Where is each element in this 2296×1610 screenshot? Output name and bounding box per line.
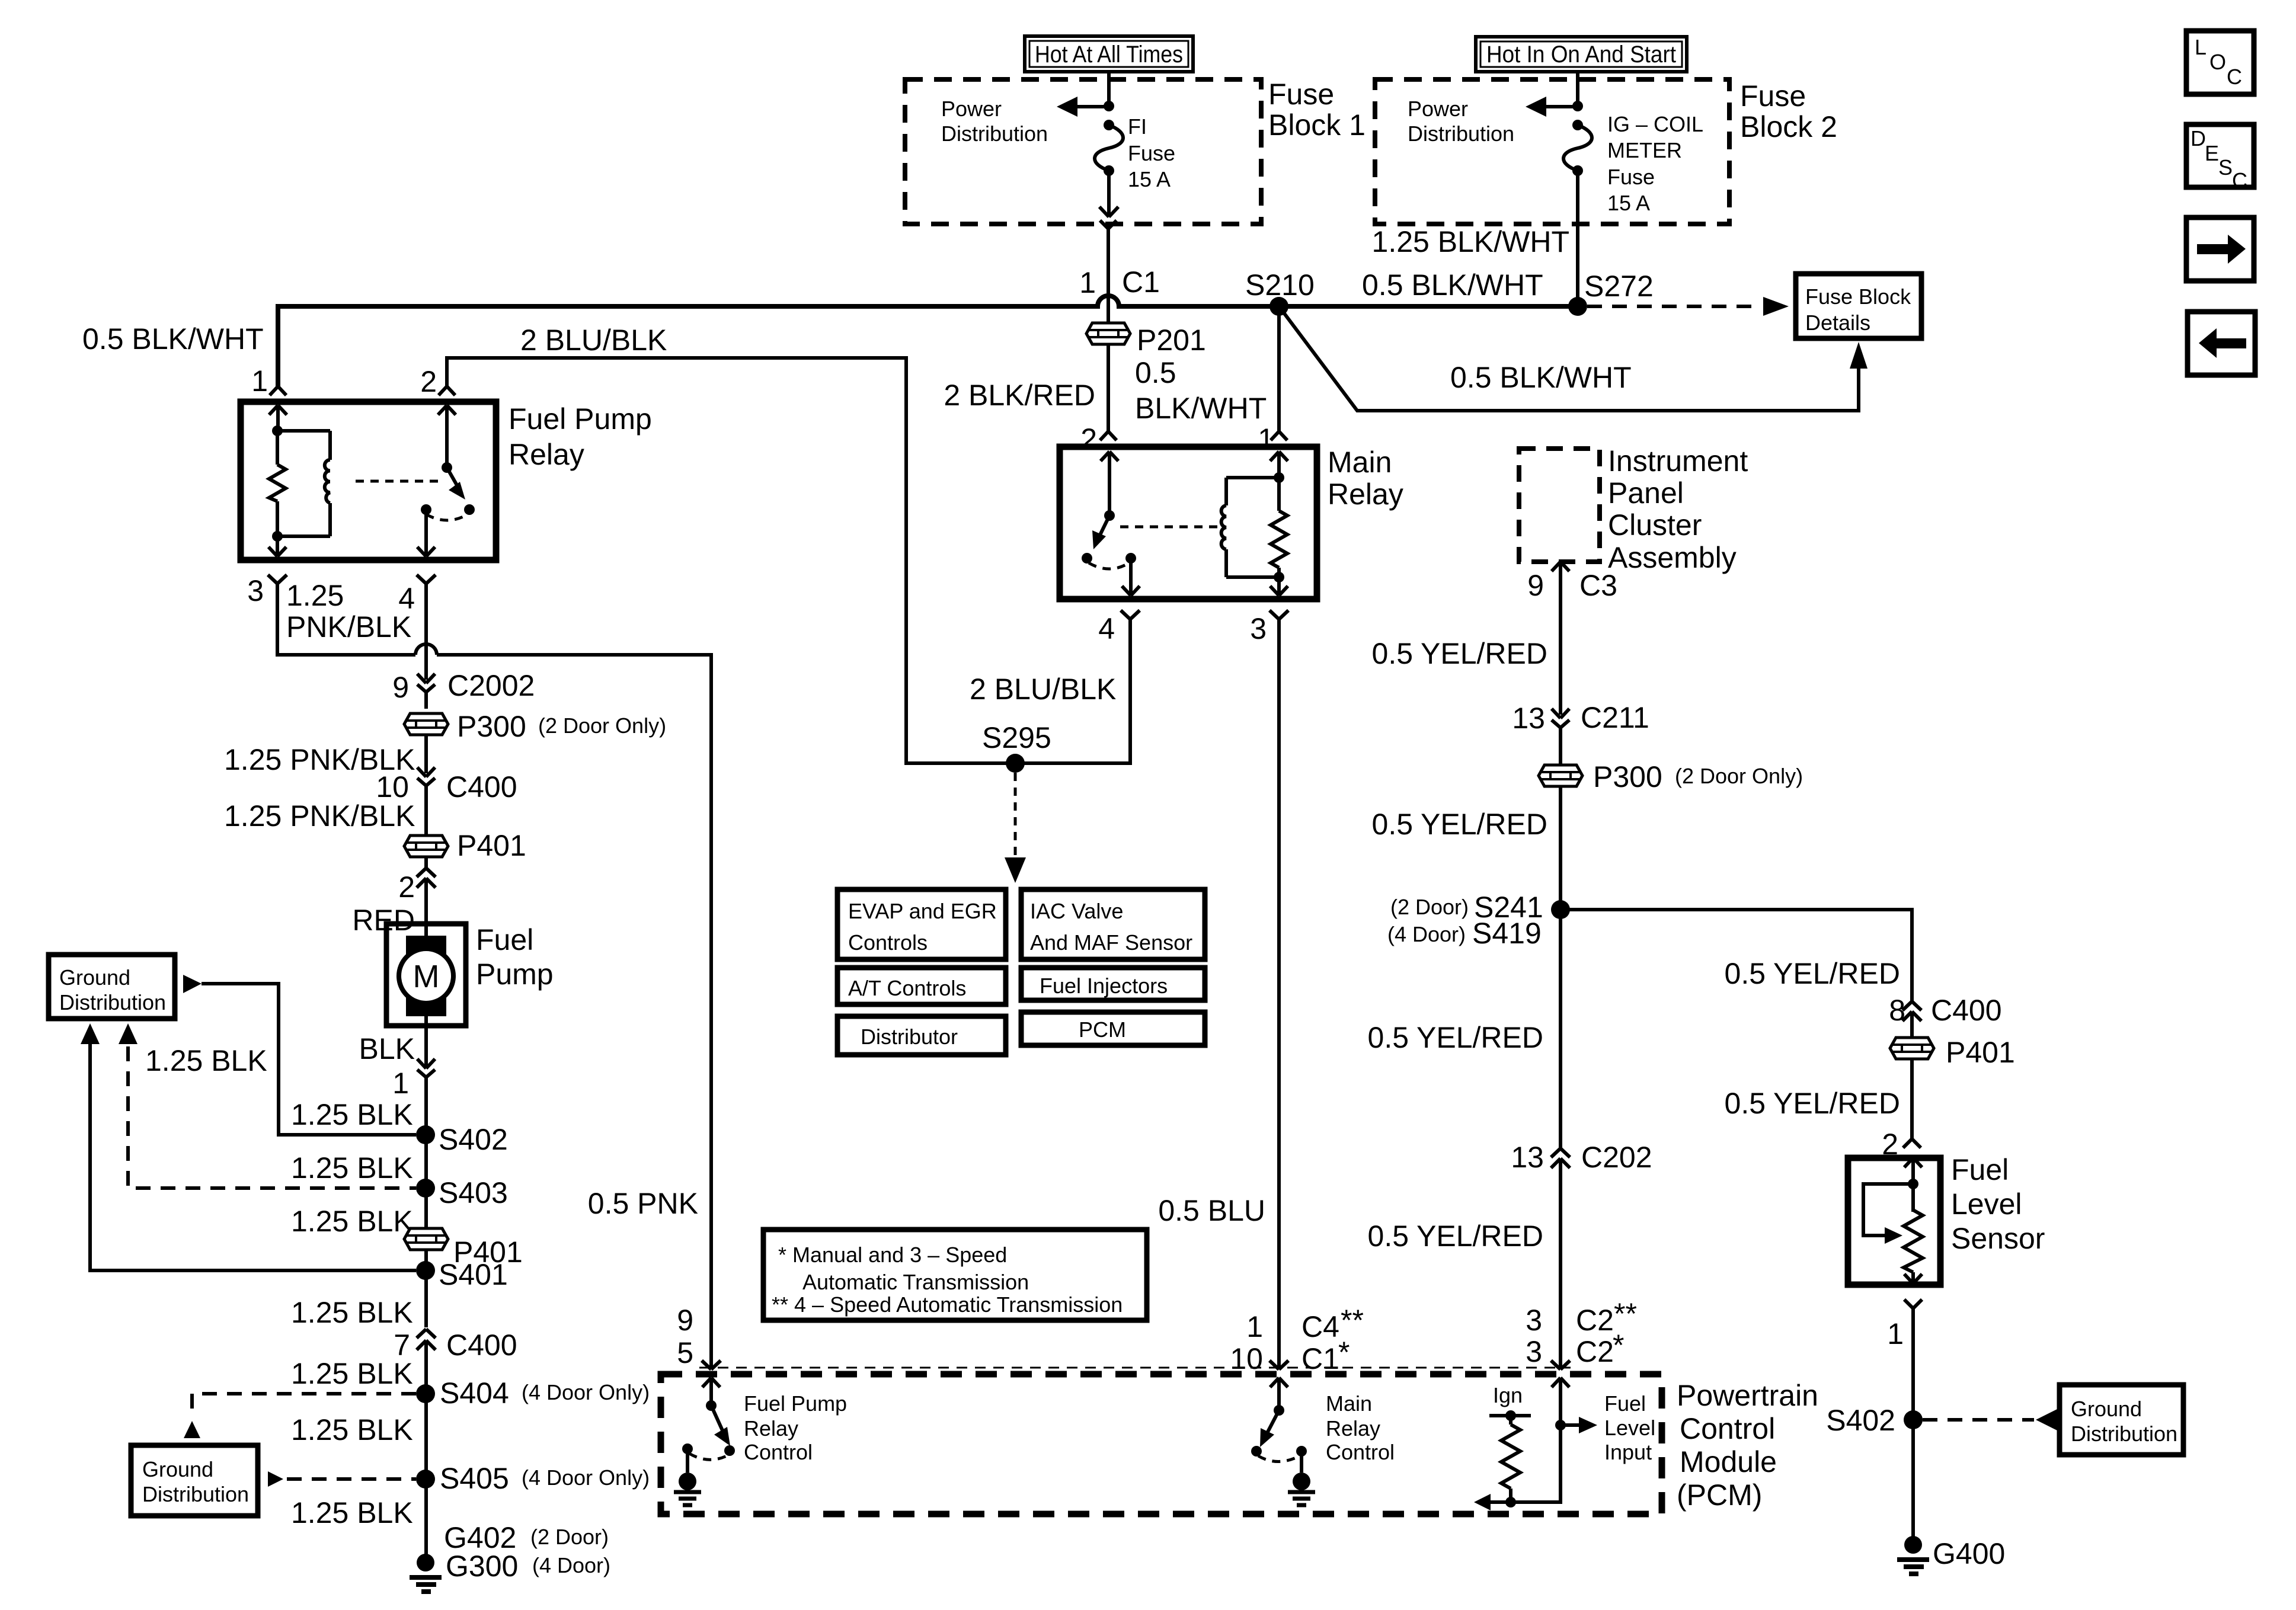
- wire 0.5 PNK chevron at PCM: [702, 1361, 721, 1369]
- wire label 0.5 BLK/WHT (below P201): [1135, 356, 1267, 425]
- svg-text:Cluster: Cluster: [1608, 508, 1702, 542]
- main relay coil + resistor: [1221, 472, 1287, 582]
- svg-text:Hot At All Times: Hot At All Times: [1035, 41, 1183, 68]
- wire P300 to S241: [1559, 786, 1562, 910]
- svg-text:P401: P401: [1946, 1036, 2015, 1069]
- svg-text:15 A: 15 A: [1128, 167, 1171, 191]
- wire main relay pin 3 down to PCM: [1277, 619, 1281, 1369]
- in-line connector 13 C202 (up chevrons): [1511, 1141, 1652, 1369]
- svg-text:Distributor: Distributor: [861, 1025, 958, 1049]
- svg-text:5: 5: [677, 1336, 693, 1369]
- svg-text:G300: G300: [446, 1550, 518, 1583]
- svg-text:Ign: Ign: [1493, 1383, 1523, 1407]
- wire S403 to P401: [424, 1188, 428, 1228]
- svg-text:8: 8: [1889, 994, 1905, 1027]
- svg-text:Instrument: Instrument: [1608, 444, 1748, 478]
- svg-text:**: **: [1341, 1304, 1364, 1337]
- arrow right from ground distribution (S405 dashed branch): [268, 1471, 283, 1487]
- fuse F2 (IG-COIL METER Fuse 15 A): [1563, 120, 1592, 176]
- svg-text:0.5 BLK/WHT: 0.5 BLK/WHT: [1450, 361, 1632, 394]
- PCM main relay control ground: [1288, 1451, 1315, 1505]
- svg-text:RED: RED: [352, 904, 415, 937]
- wire fuse to C1 with arrow: [1099, 171, 1118, 217]
- svg-text:2 BLU/BLK: 2 BLU/BLK: [970, 673, 1116, 706]
- wire into fuel pump: [424, 924, 428, 1026]
- splice S402 (right): [1826, 1404, 1923, 1437]
- wire S401 to C400: [424, 1270, 428, 1327]
- svg-text:Sensor: Sensor: [1951, 1222, 2045, 1255]
- svg-text:Power: Power: [1408, 97, 1468, 121]
- svg-text:3: 3: [247, 574, 264, 607]
- svg-text:1.25 BLK: 1.25 BLK: [291, 1413, 413, 1446]
- svg-text:Fuel: Fuel: [1604, 1391, 1646, 1416]
- wire 1.25 BLK ground distribution to S402: [202, 984, 416, 1135]
- svg-text:1.25 BLK: 1.25 BLK: [291, 1205, 413, 1238]
- wire C1 to P201: [1107, 229, 1110, 323]
- ground G402 / G300: [410, 1521, 610, 1592]
- svg-text:9: 9: [1527, 569, 1544, 602]
- svg-text:1.25 BLK: 1.25 BLK: [291, 1098, 413, 1131]
- splice S241/S419: [1387, 891, 1570, 950]
- in-line connector 7 C400 (up chevrons): [394, 1329, 517, 1394]
- svg-text:C2: C2: [1576, 1335, 1614, 1368]
- svg-text:2 BLU/BLK: 2 BLU/BLK: [520, 324, 667, 357]
- svg-text:2: 2: [420, 365, 437, 398]
- note box (transmission footnotes): [763, 1230, 1147, 1320]
- svg-text:C1: C1: [1122, 265, 1160, 299]
- svg-text:(PCM): (PCM): [1677, 1478, 1762, 1512]
- Hot At All Times title box: [1025, 36, 1193, 72]
- svg-text:IAC Valve: IAC Valve: [1030, 899, 1123, 923]
- svg-text:D: D: [2191, 126, 2206, 151]
- component box Fuel Injectors: [1021, 968, 1205, 1000]
- in-line connector 1 (down chevrons): [392, 1026, 435, 1135]
- wire S210 diagonal to fuse block details: [1279, 306, 1859, 411]
- PCM connector plane dashed line: [699, 1367, 1571, 1369]
- PCM fuel level input terminal arrow: [1552, 1378, 1569, 1425]
- main relay pin 4 chevron: [1098, 610, 1140, 645]
- svg-text:PNK/BLK: PNK/BLK: [286, 610, 411, 644]
- svg-text:Distribution: Distribution: [941, 121, 1048, 146]
- svg-text:Fuel: Fuel: [476, 923, 533, 956]
- arrow up to ground distribution (S401 branch): [81, 1023, 100, 1044]
- svg-text:Distribution: Distribution: [2071, 1422, 2177, 1446]
- svg-text:Control: Control: [1326, 1440, 1395, 1464]
- fuel level sensor box: [1848, 1153, 2045, 1285]
- svg-text:Distribution: Distribution: [1408, 121, 1514, 146]
- splice S210: [1245, 268, 1315, 316]
- svg-text:S402: S402: [1826, 1404, 1895, 1437]
- splice S403: [416, 1176, 508, 1209]
- svg-text:C202: C202: [1581, 1141, 1652, 1174]
- wire from Hot In On And Start into fuse block 2: [1576, 72, 1579, 106]
- power distribution label (block 2): [1408, 97, 1514, 146]
- fuse block details box: [1796, 274, 1921, 338]
- svg-text:Panel: Panel: [1608, 476, 1684, 510]
- svg-text:*: *: [1338, 1336, 1350, 1369]
- svg-text:P300: P300: [1593, 760, 1662, 793]
- splice S295: [982, 721, 1051, 773]
- wire relay pin 4 down (1.25 PNK/BLK): [424, 584, 428, 680]
- svg-text:Fuse: Fuse: [1607, 165, 1655, 189]
- svg-text:Fuel: Fuel: [1951, 1153, 2009, 1186]
- svg-text:(4 Door): (4 Door): [1387, 922, 1466, 946]
- svg-text:1.25 BLK: 1.25 BLK: [291, 1296, 413, 1329]
- splice S402: [416, 1123, 508, 1156]
- wire 0.5 BLU chevron at PCM: [1269, 1361, 1288, 1369]
- fuel pump relay pin 3 chevron: [247, 574, 287, 607]
- Fuel Level Input label: [1604, 1391, 1655, 1464]
- ground G400: [1897, 1536, 2005, 1574]
- arrow left toward S402: [2036, 1409, 2057, 1430]
- svg-text:1.25 BLK: 1.25 BLK: [291, 1357, 413, 1390]
- svg-text:S210: S210: [1245, 268, 1315, 302]
- svg-text:Fuel Pump: Fuel Pump: [509, 402, 652, 436]
- arrow up from ground distribution (S404 dashed branch): [184, 1421, 200, 1438]
- fuel pump relay pin 4 terminal arrow: [417, 510, 435, 556]
- fuse F1 (FI Fuse 15 A): [1095, 120, 1123, 176]
- svg-text:S: S: [2218, 155, 2233, 180]
- svg-text:Block 2: Block 2: [1740, 110, 1837, 143]
- Fuel Pump Relay Control label: [744, 1391, 847, 1464]
- wire S210 down to main relay pin 1: [1258, 306, 1279, 456]
- fuse block 2 label: [1740, 79, 1837, 143]
- PCM dashed box: [661, 1374, 1662, 1514]
- svg-text:(2 Door): (2 Door): [1390, 895, 1469, 919]
- wire label 1.25 PNK/BLK (relay pins): [286, 579, 411, 644]
- component box IAC Valve And MAF Sensor: [1021, 889, 1205, 959]
- in-line connector 2 (up chevrons): [398, 856, 436, 924]
- svg-text:Main: Main: [1328, 446, 1392, 479]
- svg-text:Relay: Relay: [1326, 1416, 1380, 1441]
- svg-text:METER: METER: [1607, 138, 1682, 162]
- wire 0.5 BLK/WHT drop to fuel pump relay pin 1: [251, 364, 286, 398]
- fuel pump relay pin 1 terminal arrow: [269, 405, 287, 431]
- svg-text:E: E: [2205, 141, 2219, 165]
- svg-text:0.5 YEL/RED: 0.5 YEL/RED: [1368, 1021, 1543, 1054]
- svg-text:Level: Level: [1951, 1188, 2022, 1221]
- svg-text:EVAP and EGR: EVAP and EGR: [848, 899, 997, 923]
- wire fuse block 2 to S272: [1576, 171, 1579, 306]
- wire S402 to G400: [1911, 1420, 1915, 1545]
- main relay actuation dashed link: [1120, 526, 1219, 529]
- splice S272: [1568, 270, 1654, 316]
- svg-text:M: M: [413, 959, 440, 994]
- wire from Hot At All Times into fuse block 1: [1107, 72, 1111, 106]
- svg-text:S405: S405: [440, 1462, 509, 1495]
- component box PCM (reference): [1021, 1012, 1205, 1045]
- svg-text:Relay: Relay: [1328, 478, 1403, 511]
- fuel pump relay pin 4 chevron: [398, 575, 436, 615]
- arrow from ground distribution to S402 wire: [183, 975, 202, 993]
- svg-text:And MAF Sensor: And MAF Sensor: [1030, 930, 1192, 955]
- svg-text:C2002: C2002: [447, 669, 535, 702]
- svg-text:Block 1: Block 1: [1268, 108, 1366, 142]
- sensor pin 2 chevron: [1882, 1128, 1921, 1161]
- wire S402 to S403: [424, 1135, 428, 1188]
- svg-text:PCM: PCM: [1079, 1017, 1126, 1042]
- svg-text:** 4 – Speed Automatic Transmi: ** 4 – Speed Automatic Transmission: [772, 1292, 1123, 1317]
- svg-text:1.25 PNK/BLK: 1.25 PNK/BLK: [224, 799, 415, 833]
- svg-text:Fuel Pump: Fuel Pump: [744, 1391, 847, 1416]
- in-line connector 9 C2002: [392, 669, 535, 709]
- wire S404 to S405: [424, 1394, 428, 1479]
- svg-text:C4: C4: [1302, 1310, 1339, 1343]
- Main Relay Control label: [1326, 1391, 1395, 1464]
- svg-text:(4 Door Only): (4 Door Only): [522, 1380, 650, 1404]
- svg-text:Fuse: Fuse: [1268, 78, 1334, 111]
- svg-text:C: C: [2227, 65, 2242, 89]
- wire P401 to fuel level sensor pin 2: [1910, 1058, 1914, 1139]
- svg-text:S403: S403: [439, 1176, 508, 1209]
- svg-text:1.25 BLK: 1.25 BLK: [291, 1496, 413, 1529]
- in-line connector P401 (left lower): [404, 1228, 523, 1269]
- svg-text:P300: P300: [457, 710, 526, 743]
- icon box DESC: [2186, 124, 2254, 193]
- wire fuel level chevron at PCM: [1551, 1361, 1570, 1369]
- svg-text:* Manual and 3 – Speed: * Manual and 3 – Speed: [778, 1243, 1007, 1267]
- IG-COIL METER Fuse 15 A label: [1607, 112, 1703, 215]
- dashed arrow from S295 to component boxes: [1005, 773, 1026, 883]
- wire P201 to main relay pin 2: [1080, 344, 1108, 456]
- main relay pin 4 terminal arrow: [1122, 558, 1140, 596]
- svg-text:1: 1: [251, 364, 268, 398]
- svg-text:3: 3: [1526, 1304, 1542, 1337]
- PCM fuel level input node: [1555, 1417, 1597, 1433]
- PCM main relay control terminal arrow: [1270, 1378, 1288, 1410]
- svg-text:0.5: 0.5: [1135, 356, 1176, 389]
- dashed wire S403 to ground distribution: [128, 1046, 416, 1188]
- svg-text:S404: S404: [440, 1377, 509, 1410]
- PCM main relay control switch: [1251, 1405, 1307, 1462]
- svg-text:1: 1: [392, 1067, 409, 1100]
- svg-text:9: 9: [392, 671, 409, 704]
- svg-text:C211: C211: [1581, 701, 1649, 734]
- svg-text:Main: Main: [1326, 1391, 1372, 1416]
- fuel pump relay actuation dashed link: [356, 480, 442, 483]
- fuel pump relay switch: [421, 405, 475, 520]
- in-line connector P300 (left): [404, 710, 666, 743]
- PCM fuel pump relay control ground: [674, 1449, 701, 1505]
- svg-text:BLK/WHT: BLK/WHT: [1135, 392, 1267, 425]
- svg-text:15 A: 15 A: [1607, 191, 1650, 215]
- arrow up to ground distribution (S403 dashed branch): [119, 1023, 137, 1044]
- in-line connector 10 C400: [376, 767, 517, 836]
- svg-text:Automatic Transmission: Automatic Transmission: [802, 1270, 1029, 1294]
- svg-text:Level: Level: [1604, 1416, 1655, 1440]
- fuel level sensor internals (variable resistor): [1863, 1158, 1923, 1285]
- in-line connector P401 (left upper): [404, 829, 526, 862]
- svg-text:(2 Door): (2 Door): [530, 1525, 609, 1549]
- svg-text:C400: C400: [1931, 994, 2002, 1027]
- PCM pins 1 C4** / 10 C1* labels: [1230, 1304, 1364, 1375]
- dashed wire S272 to fuse block details: [1587, 297, 1789, 316]
- svg-text:10: 10: [1230, 1342, 1263, 1375]
- PCM fuel pump relay control switch: [682, 1400, 735, 1459]
- svg-text:C1: C1: [1302, 1342, 1339, 1375]
- svg-text:9: 9: [677, 1304, 693, 1337]
- svg-text:1.25 BLK: 1.25 BLK: [291, 1151, 413, 1185]
- wire S241 branch to fuel level sensor: [1560, 910, 1912, 1001]
- FI Fuse 15 A label: [1128, 114, 1175, 191]
- component box Distributor: [837, 1016, 1006, 1055]
- in-line connector 13 C211: [1512, 701, 1649, 766]
- main relay switch: [1082, 510, 1136, 569]
- svg-text:S295: S295: [982, 721, 1051, 754]
- in-line connector 8 C400 (up chevrons): [1889, 994, 2001, 1038]
- wire C202 segment: [1559, 910, 1562, 1148]
- svg-text:P401: P401: [457, 829, 526, 862]
- svg-text:Control: Control: [744, 1440, 813, 1464]
- wire S405 to ground: [424, 1479, 428, 1563]
- svg-text:Hot In On And Start: Hot In On And Start: [1486, 41, 1676, 68]
- sensor pin 1 chevron: [1887, 1299, 1922, 1420]
- svg-text:Fuse Block: Fuse Block: [1805, 284, 1911, 309]
- svg-text:A/T Controls: A/T Controls: [848, 976, 966, 1000]
- svg-text:0.5 BLU: 0.5 BLU: [1158, 1194, 1265, 1227]
- main relay pin 1 terminal arrow: [1270, 452, 1288, 478]
- svg-text:O: O: [2209, 50, 2226, 74]
- ground distribution box (lower left): [131, 1445, 258, 1516]
- svg-text:(4 Door): (4 Door): [532, 1553, 610, 1577]
- connector C1 chevron: [1079, 220, 1160, 299]
- svg-text:1: 1: [1246, 1310, 1263, 1343]
- svg-text:Details: Details: [1805, 311, 1870, 335]
- main relay pin 3 terminal arrow: [1270, 577, 1288, 596]
- PCM fuel pump relay control terminal arrow: [702, 1378, 720, 1406]
- PCM pins 9/5 labels: [677, 1304, 693, 1369]
- fuse block 1 dashed box: [905, 79, 1261, 224]
- PCM pins 3 C2** / 3 C2* labels: [1526, 1297, 1637, 1368]
- svg-text:S419: S419: [1472, 917, 1542, 950]
- wire S401 to ground distribution: [90, 1044, 416, 1270]
- wire P300 to C400: [424, 734, 428, 773]
- PCM label: [1677, 1379, 1818, 1512]
- svg-text:C400: C400: [446, 1329, 517, 1362]
- svg-text:1.25 BLK/WHT: 1.25 BLK/WHT: [1372, 225, 1569, 258]
- svg-text:13: 13: [1512, 702, 1545, 735]
- splice S405: [416, 1462, 650, 1495]
- svg-text:0.5 BLK/WHT: 0.5 BLK/WHT: [82, 322, 264, 356]
- fuel pump relay pin 3 terminal arrow: [268, 536, 286, 556]
- svg-text:(2 Door Only): (2 Door Only): [1675, 764, 1803, 788]
- svg-text:Power: Power: [941, 97, 1002, 121]
- svg-text:4: 4: [1098, 612, 1115, 645]
- svg-text:0.5 PNK: 0.5 PNK: [588, 1187, 698, 1220]
- splice S401: [416, 1258, 508, 1291]
- svg-text:Ground: Ground: [59, 965, 130, 990]
- svg-text:Powertrain: Powertrain: [1677, 1379, 1818, 1412]
- svg-text:1: 1: [1887, 1317, 1904, 1350]
- svg-text:(4 Door Only): (4 Door Only): [522, 1465, 650, 1490]
- svg-text:Fuel Injectors: Fuel Injectors: [1040, 974, 1168, 998]
- wire 0.5 PNK from relay pin 3 to PCM (hops over pin 4 wire): [277, 584, 711, 1369]
- wire 0.5 BLK/WHT bus: [278, 296, 1578, 386]
- wire 2 BLK/RED chevron at main relay pin 2: [1100, 431, 1117, 440]
- fuel pump relay coil + resistor: [269, 425, 330, 542]
- svg-text:C2: C2: [1576, 1304, 1614, 1337]
- svg-text:13: 13: [1511, 1141, 1544, 1174]
- wire 2 BLU/BLK from fuel pump relay pin 2 to main relay pin 4: [420, 324, 1130, 763]
- svg-text:**: **: [1614, 1297, 1637, 1330]
- fuse block 2 dashed box: [1375, 79, 1729, 224]
- svg-text:S402: S402: [439, 1123, 508, 1156]
- dashed wire S405 to ground distribution: [287, 1477, 416, 1481]
- main relay pin 3 chevron: [1250, 610, 1288, 645]
- fuel pump relay box: [241, 402, 652, 560]
- fuel pump motor M1: [386, 923, 554, 1026]
- svg-text:0.5 YEL/RED: 0.5 YEL/RED: [1372, 808, 1547, 841]
- fuse block 1 label: [1268, 78, 1366, 142]
- svg-text:Control: Control: [1680, 1412, 1775, 1445]
- svg-text:C: C: [2232, 168, 2247, 193]
- svg-text:Relay: Relay: [509, 438, 584, 471]
- main relay box: [1060, 446, 1403, 599]
- icon box left-arrow: [2188, 312, 2255, 375]
- ground distribution box (upper left): [49, 955, 175, 1019]
- wire P401 to S401: [424, 1249, 428, 1270]
- svg-text:0.5 BLK/WHT: 0.5 BLK/WHT: [1362, 268, 1543, 302]
- svg-text:3: 3: [1526, 1335, 1542, 1368]
- svg-text:Ground: Ground: [142, 1457, 213, 1481]
- in-line connector P401 (right): [1890, 1036, 2015, 1069]
- svg-text:Controls: Controls: [848, 930, 928, 955]
- icon box right-arrow: [2186, 217, 2254, 281]
- svg-text:0.5 YEL/RED: 0.5 YEL/RED: [1725, 1087, 1900, 1120]
- svg-text:IG – COIL: IG – COIL: [1607, 112, 1703, 136]
- svg-text:C3: C3: [1579, 569, 1617, 602]
- svg-text:Fuse: Fuse: [1128, 141, 1175, 165]
- component box A/T Controls: [837, 968, 1006, 1004]
- svg-text:Input: Input: [1604, 1440, 1652, 1464]
- svg-text:S401: S401: [439, 1258, 508, 1291]
- arrow up into fuse block details: [1850, 342, 1868, 369]
- svg-text:0.5 YEL/RED: 0.5 YEL/RED: [1725, 957, 1900, 990]
- dashed wire S404 to ground distribution: [192, 1394, 416, 1419]
- svg-text:1.25: 1.25: [286, 579, 344, 612]
- arrow to Power Distribution (block 2): [1526, 97, 1583, 117]
- svg-text:1: 1: [1079, 266, 1096, 299]
- svg-text:Fuse: Fuse: [1740, 79, 1806, 113]
- svg-text:Relay: Relay: [744, 1416, 798, 1441]
- wire 0.5 BLK/WHT chevron at main relay pin 1: [1271, 431, 1287, 440]
- svg-text:Distribution: Distribution: [59, 990, 166, 1014]
- component box EVAP and EGR Controls: [837, 889, 1006, 959]
- svg-text:FI: FI: [1128, 114, 1147, 139]
- arrow to Power Distribution (block 1): [1057, 97, 1114, 117]
- main relay pin 2 terminal arrow: [1101, 452, 1118, 516]
- svg-text:0.5 YEL/RED: 0.5 YEL/RED: [1372, 637, 1547, 670]
- svg-text:Pump: Pump: [476, 958, 554, 991]
- svg-text:10: 10: [376, 770, 409, 804]
- svg-text:BLK: BLK: [359, 1032, 415, 1065]
- instrument panel cluster assembly dashed box: [1519, 444, 1748, 574]
- svg-text:3: 3: [1250, 612, 1267, 645]
- svg-text:G400: G400: [1933, 1537, 2005, 1570]
- power distribution label (block 1): [941, 97, 1048, 146]
- svg-text:2 BLK/RED: 2 BLK/RED: [944, 379, 1095, 412]
- svg-text:P201: P201: [1137, 324, 1206, 357]
- svg-text:(2 Door Only): (2 Door Only): [538, 713, 666, 738]
- svg-text:Module: Module: [1680, 1445, 1777, 1478]
- in-line connector P201: [1086, 323, 1206, 357]
- PCM internal wire to fuel level comparator: [1474, 1425, 1560, 1510]
- svg-text:2: 2: [1080, 422, 1097, 456]
- svg-text:S272: S272: [1584, 270, 1654, 303]
- in-line connector P300 (right): [1539, 760, 1803, 793]
- Hot In On And Start title box: [1476, 37, 1687, 72]
- svg-text:Ground: Ground: [2071, 1397, 2142, 1421]
